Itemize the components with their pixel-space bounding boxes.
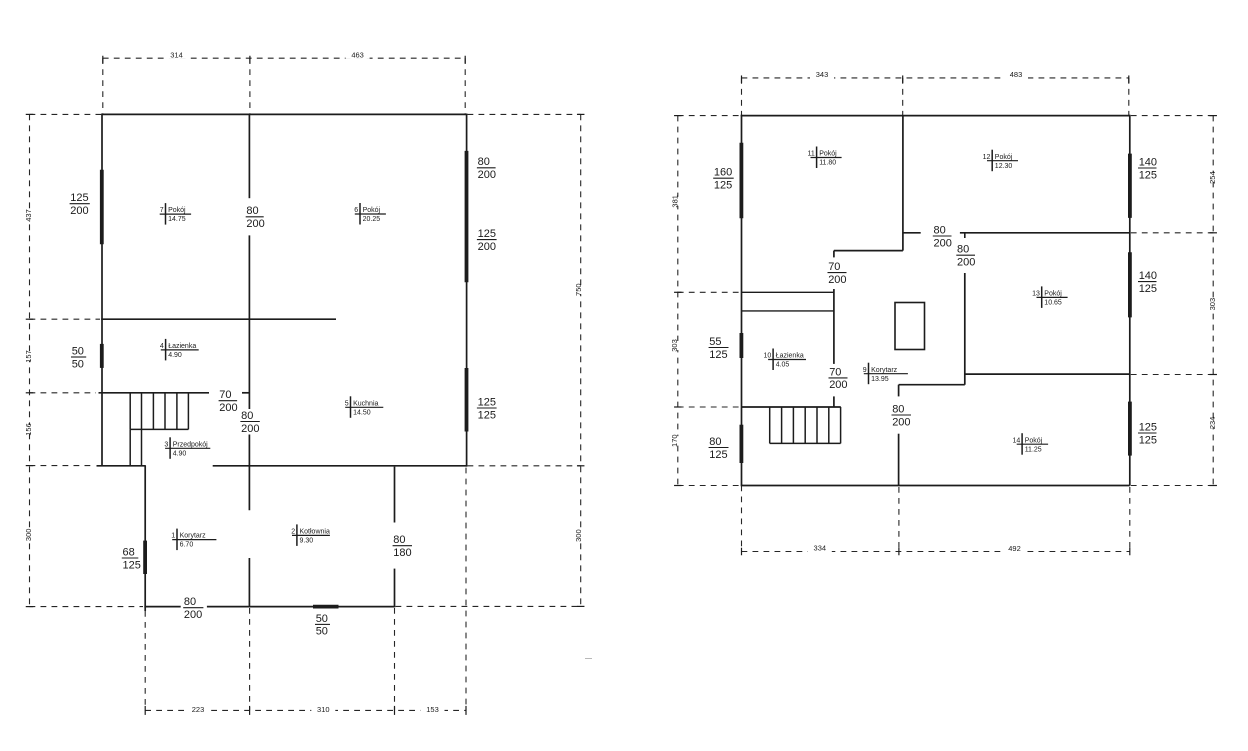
svg-text:200: 200 [241,423,259,435]
ticks left dim right plan [674,116,682,486]
right connector y=115.6 [1131,115,1213,117]
svg-text:50: 50 [316,626,328,638]
svg-text:80: 80 [246,205,258,217]
dimension text 310 [311,705,335,714]
dim bottom horizontal (334/492) [742,551,1130,553]
dimension drop at x=249.9 [249,58,251,114]
svg-text:200: 200 [828,274,846,286]
wall lower-section right x=394.5 lower segment (door gap above) [394,569,396,608]
dimension text 381 [663,195,687,208]
svg-text:234: 234 [1208,417,1217,430]
right connector y=114.4 [468,113,581,115]
svg-text:156: 156 [24,423,33,436]
wall interior vertical x=833.9 lower stub (door gap above) [833,396,835,407]
room label 10 Lazienka 4.05 [764,349,810,371]
dimension line top (314/463) horizontal [103,57,465,59]
ticks on left dimension line [26,114,34,606]
svg-text:180: 180 [393,547,411,559]
svg-text:310: 310 [317,705,330,714]
svg-text:223: 223 [192,705,205,714]
svg-text:300: 300 [574,529,583,542]
left connector y=485.5 [678,485,741,487]
wall lower-section right x=394.5 upper segment [394,467,396,523]
room label 2 Kotlownia 9.30 [290,524,334,546]
door label 70/200 bathroom [216,388,241,414]
bottom dimension line y=710.4 [145,709,466,711]
window label 125/125 right [474,396,500,422]
right connector y=374.5 [1131,374,1213,376]
svg-text:80: 80 [709,436,721,448]
window 68/125 on lower-left wall [143,541,147,574]
wall exterior left right plan [741,115,743,486]
svg-text:170: 170 [670,434,679,447]
window 50/50 on left wall [100,344,104,368]
svg-text:Pokój: Pokój [819,151,837,158]
dimension drop at x=465.2 [464,58,466,114]
svg-text:200: 200 [478,241,496,253]
stray mark [585,658,592,660]
door label 70/200 room 11 [825,260,850,286]
window label 125/200 right [474,227,500,253]
svg-text:5: 5 [345,400,349,407]
dim drop x=902.7 [902,78,904,116]
wall interior horizontal y=232.8 right of door [960,232,1130,234]
svg-text:80: 80 [892,403,904,415]
dimension text 463 [346,50,370,59]
svg-text:140: 140 [1139,156,1157,168]
room label 7 Pokoj 14.75 [158,203,195,225]
door jamb stub x=964.8 at wall y=232.8 [964,233,966,238]
svg-text:14.50: 14.50 [353,409,371,416]
svg-text:Pokój: Pokój [1044,291,1062,298]
svg-text:125: 125 [1139,169,1157,181]
svg-text:11.25: 11.25 [1025,446,1042,453]
svg-text:Kotłownia: Kotłownia [300,529,330,536]
right connector y=232.8 [1131,232,1213,234]
dim right vertical x=1213.2 [1212,116,1214,486]
svg-text:80: 80 [393,534,405,546]
svg-text:70: 70 [219,389,231,401]
svg-text:80: 80 [241,410,253,422]
dimension text 157 [16,350,40,363]
svg-text:4.05: 4.05 [776,362,790,369]
stairs upper flight treads [130,393,188,430]
dimension text 303 left [663,339,687,352]
ticks bottom dim right plan [742,548,1130,556]
svg-text:7: 7 [160,207,164,214]
wall interior horizontal y=392.8 left of door [99,392,210,394]
svg-text:14: 14 [1013,437,1021,444]
svg-text:125: 125 [1139,434,1157,446]
svg-text:Pokój: Pokój [995,154,1013,161]
window label 68/125 lower-left [119,546,142,572]
svg-text:50: 50 [72,345,84,357]
room label 6 Pokoj 20.25 [353,203,390,225]
window label 160/125 [711,166,738,192]
room label 4 Lazienka 4.90 [159,339,203,361]
svg-text:50: 50 [72,358,84,370]
ticks on top dimension line [103,56,465,64]
svg-text:Pokój: Pokój [168,207,186,214]
window label 50/50 bottom [313,612,334,638]
svg-text:80: 80 [478,156,490,168]
dimension text 300 left [16,529,40,542]
svg-text:483: 483 [1010,70,1023,79]
svg-text:13: 13 [1032,291,1040,298]
dimension text 437 [16,209,40,222]
bottom drop x=145.2 [144,611,146,710]
door label 80/200 room 14 [889,403,915,429]
svg-text:125: 125 [70,192,88,204]
window 160/125 left wall [740,143,744,219]
window 125/200 on left wall [100,170,104,245]
stairwell side walls going down [130,429,141,465]
right connector y=485.5 [1131,485,1213,487]
wall interior vertical x=902.9 [902,116,904,251]
svg-text:125: 125 [478,228,496,240]
wall exterior left [101,114,103,466]
svg-text:343: 343 [816,70,829,79]
svg-text:4.90: 4.90 [173,450,187,457]
right connector y=465.8 [468,465,581,467]
bathroom wall double line upper y=292.3 [742,291,834,293]
svg-text:12: 12 [983,154,991,161]
left dimension vertical x=29.5 [29,114,31,606]
svg-text:70: 70 [828,261,840,273]
svg-text:303: 303 [670,339,679,352]
left connector y=407 [678,406,741,408]
svg-text:200: 200 [934,237,952,249]
svg-text:200: 200 [829,379,847,391]
dimension text 483 [1004,70,1028,79]
svg-text:492: 492 [1008,544,1021,553]
door label 80/200 in wall x=249 (rooms 6/7) [243,204,267,230]
dim drop x=741.5 [741,78,743,116]
dimension text 170 [663,434,687,447]
svg-text:2: 2 [291,529,295,536]
svg-text:125: 125 [1139,421,1157,433]
svg-text:Pokój: Pokój [1025,437,1043,444]
svg-text:9.30: 9.30 [300,538,314,545]
dimension text 343 [810,70,834,79]
svg-text:254: 254 [1208,171,1217,184]
svg-text:6: 6 [354,207,358,214]
wall interior vertical x=249.4 upper segment [248,114,250,198]
wall interior horizontal y=232.8 [903,232,921,234]
room label 11 Pokoj 11.80 [808,147,846,169]
wall lower-section bottom y=606.6 [144,606,394,608]
svg-text:200: 200 [478,169,496,181]
svg-text:4.90: 4.90 [168,352,182,359]
room label 1 Korytarz 6.70 [170,529,220,551]
ticks top dim right plan [742,75,1129,83]
wall exterior top right plan [741,115,1130,117]
wall interior horizontal y=250.6 [834,250,903,252]
svg-text:200: 200 [70,205,88,217]
svg-text:13.95: 13.95 [871,376,889,383]
wall interior vertical x=249.4 middle segment (door gap above) [248,235,250,510]
svg-text:437: 437 [24,209,33,222]
svg-text:125: 125 [709,449,727,461]
wall exterior bottom right plan [741,485,1130,487]
ticks on bottom dimension line [145,706,466,715]
room label 3 Przedpokoj 4.90 [163,437,214,459]
window label 125/125 lower [1136,421,1161,447]
wall exterior top [101,113,466,115]
door label 80/200 room 13 [954,243,979,269]
bathroom wall double line lower y=310.9 [742,310,834,312]
window 50/50 on bottom wall [313,605,339,609]
left connector y=115.6 [678,115,741,117]
bottom drop x=741.5 [741,486,743,552]
left connector y=392.8 [30,392,97,394]
window 125/125 on right wall [465,368,469,432]
svg-text:125: 125 [478,409,496,421]
wall interior vertical x=833.9 middle (door gap above) [833,289,835,364]
svg-text:125: 125 [1139,283,1157,295]
bottom drop x=394.5 [394,608,396,710]
door label 80/200 room 12 [930,224,955,250]
dim top horizontal (343/483) [742,77,1129,79]
window label 55/125 [706,335,732,361]
wall horizontal y=465.8 left segment (to stairwell) [97,465,146,467]
svg-text:80: 80 [957,244,969,256]
dimension text 156 [16,423,40,436]
svg-text:6.70: 6.70 [180,542,194,549]
window 55/125 left wall [740,333,744,358]
svg-text:125: 125 [478,396,496,408]
wall interior horizontal y=384.7 (korytarz) [899,384,965,386]
wall interior horizontal y=374.1 right [965,373,1130,375]
svg-text:125: 125 [709,349,727,361]
door label 80/180 boiler room [390,533,415,559]
room label 14 Pokoj 11.25 [1013,433,1053,455]
window label 125/200 left [67,191,93,217]
bottom drop x=1129.8 [1129,487,1131,552]
svg-text:Łazienka: Łazienka [168,343,196,350]
left connector y=292.3 [678,291,741,293]
svg-text:125: 125 [123,559,141,571]
door label 80/200 bottom wall [181,595,207,621]
svg-text:200: 200 [892,416,910,428]
svg-text:300: 300 [24,529,33,542]
window 125/125 right wall lower [1128,402,1132,456]
bottom drop x=249.6 [249,608,251,710]
svg-text:10: 10 [764,353,772,360]
chimney shaft rectangle [895,303,925,350]
dimension drop at x=102.8 [102,58,104,114]
stairs right plan treads [770,407,841,443]
wall interior vertical x=833.9 upper stub [833,251,835,258]
room label 9 Korytarz 13.95 [862,363,912,385]
wall interior vertical x=249.4 lower segment (door gap above) [248,558,250,607]
svg-text:463: 463 [351,50,364,59]
room label 5 Kuchnia 14.50 [343,396,387,418]
dim left vertical x=677.8 [677,116,679,486]
svg-text:160: 160 [714,167,732,179]
wall interior horizontal y=407 (top of stairs) [742,406,841,408]
svg-text:12.30: 12.30 [995,163,1013,170]
dimension text 314 [165,50,189,59]
room label 13 Pokoj 10.65 [1032,286,1071,308]
svg-text:4: 4 [160,343,164,350]
window label 80/125 [706,435,732,461]
dimension text 234 [1201,417,1225,430]
right dimension vertical x=580.7 [580,114,582,606]
svg-text:334: 334 [814,544,827,553]
svg-text:3: 3 [164,441,168,448]
window label 80/200 right-top [474,155,499,181]
svg-text:200: 200 [957,257,975,269]
left connector y=319.2 [30,318,101,320]
svg-text:303: 303 [1208,298,1217,311]
dimension text 254 [1201,171,1225,184]
dimension text 492 [1003,544,1027,553]
svg-text:55: 55 [709,336,721,348]
window 140/125 right wall upper [1128,154,1132,218]
svg-text:200: 200 [246,218,264,230]
left connector y=465.6 [30,465,96,467]
dimension text 750 [567,283,591,296]
svg-text:Korytarz: Korytarz [180,533,207,540]
window label 140/125 upper [1136,156,1161,182]
svg-text:314: 314 [170,50,183,59]
svg-text:14.75: 14.75 [168,216,186,223]
wall interior horizontal y=319.2 (below rooms 6/7) [101,318,336,320]
window 80/125 left wall [740,425,744,463]
wall lower-section left x=145.2 [144,466,146,611]
left connector y=606.6 [30,606,144,608]
svg-text:750: 750 [574,283,583,296]
window 140/125 right wall middle [1128,252,1132,317]
svg-text:Pokój: Pokój [363,207,381,214]
svg-text:20.25: 20.25 [363,216,381,223]
svg-text:157: 157 [24,350,33,363]
right connector y=606.4 lower [396,605,581,607]
svg-text:153: 153 [426,705,439,714]
dimension text 223 [186,705,210,714]
window label 140/125 middle [1136,269,1161,295]
svg-text:Łazienka: Łazienka [776,353,804,360]
dimension text 334 [808,544,832,553]
svg-text:Kuchnia: Kuchnia [353,400,378,407]
window label 50/50 left [69,345,90,371]
window 80/200+125/200 on right wall [465,151,469,282]
room label 12 Pokoj 12.30 [983,150,1022,172]
svg-text:50: 50 [316,613,328,625]
door label 80/200 kitchen [238,409,263,435]
dimension text 300 right [567,529,591,542]
ticks right dim right plan [1209,116,1217,486]
left connector y=114.4 [30,113,102,115]
bottom drop x=466 [465,468,467,711]
svg-text:Przedpokój: Przedpokój [173,441,208,448]
svg-text:80: 80 [184,596,196,608]
dimension text 153 [421,705,445,714]
wall interior vertical x=898.6 lower (door gap above) [898,434,900,486]
svg-text:9: 9 [863,367,867,374]
dim drop x=1128.8 [1128,78,1130,116]
svg-text:10.65: 10.65 [1044,300,1062,307]
svg-text:11.80: 11.80 [819,160,836,167]
svg-text:200: 200 [184,609,202,621]
svg-text:140: 140 [1139,270,1157,282]
wall horizontal y=465.8 right segment [213,465,467,467]
svg-text:381: 381 [671,195,680,208]
wall interior vertical x=964.8 (door gap above) [964,273,966,385]
svg-text:Korytarz: Korytarz [871,367,898,374]
bottom drop x=898.9 [898,487,900,552]
svg-text:125: 125 [714,180,732,192]
svg-text:11: 11 [808,151,815,158]
door label 70/200 bathroom [826,365,851,391]
svg-text:200: 200 [219,402,237,414]
wall exterior right right plan [1129,115,1131,486]
svg-text:80: 80 [934,224,946,236]
ticks on right dimension line [577,114,585,606]
svg-text:68: 68 [123,546,135,558]
wall interior horizontal y=392.8 right of door [242,392,250,394]
wall interior vertical x=898.6 upper stub [898,385,900,397]
svg-text:70: 70 [829,366,841,378]
svg-text:1: 1 [171,533,175,540]
wall exterior right [466,114,468,467]
dimension text 303 right [1201,298,1225,311]
